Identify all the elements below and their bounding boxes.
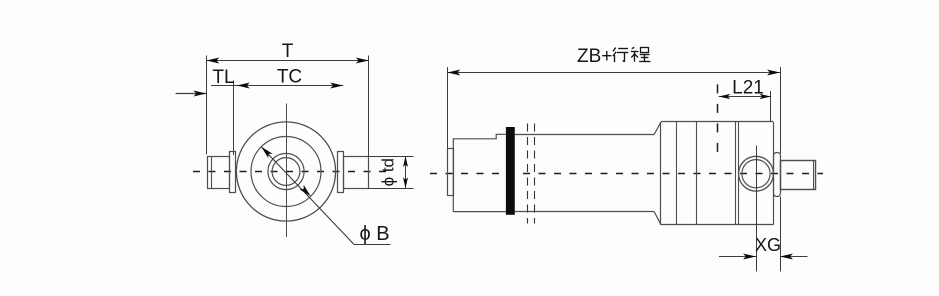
- left trunnion cap line: [211, 156, 213, 188]
- rod bushing outer circle: [268, 153, 304, 189]
- arrowhead ZB left: [447, 70, 460, 76]
- svg-text:ϕ td: ϕ td: [379, 158, 398, 186]
- arrowhead phi B lower-right: [299, 185, 310, 196]
- head left face: [660, 122, 662, 225]
- wire ZB extension line right: [780, 67, 782, 154]
- wire extension line right of T dimension: [368, 56, 370, 157]
- hidden piston line left: [527, 124, 529, 224]
- hidden port position dashed line: [717, 84, 719, 157]
- label xingcheng char xing: [613, 48, 616, 52]
- body outer circle: [236, 122, 335, 221]
- head bottom line: [661, 224, 773, 226]
- arrowhead phi B upper-left: [261, 147, 272, 158]
- arrowhead phi td bottom: [403, 177, 408, 188]
- dimension ZB line: [447, 72, 780, 74]
- dimension TL/TC line: [211, 85, 343, 87]
- cap joint line 1: [735, 122, 737, 225]
- svg-text:T: T: [282, 41, 294, 62]
- wire extension line TL right: [233, 81, 235, 156]
- arrowhead T right: [356, 58, 369, 64]
- piston rod stub chamfer line: [813, 160, 815, 189]
- label xingcheng char cheng: [632, 47, 635, 48]
- rod bushing inner circle: [272, 158, 300, 186]
- hidden piston line right: [534, 124, 536, 224]
- wire XG right arrow leader: [780, 256, 808, 258]
- cylinder tube bottom line: [515, 211, 654, 213]
- rod end button: [448, 149, 454, 196]
- bolt circle phi B: [251, 137, 321, 207]
- arrowhead TC right: [330, 83, 343, 89]
- piston rod stub: [781, 161, 816, 190]
- port boss outer circle: [739, 156, 774, 191]
- cap end block outline: [453, 134, 506, 211]
- wire XG extension right: [780, 197, 782, 272]
- right trunnion pin rectangle: [344, 157, 369, 189]
- head right face: [773, 122, 775, 225]
- wire XG left arrow leader: [719, 256, 756, 258]
- head chamfer bottom: [654, 212, 661, 225]
- wire TL outside arrow leader: [176, 93, 207, 95]
- head internal line 1: [676, 122, 678, 225]
- node horizontal centerline of side view: [430, 173, 823, 175]
- svg-text:ZB+: ZB+: [577, 46, 612, 67]
- arrowhead ZB right: [767, 70, 780, 76]
- wire ZB extension line left: [447, 67, 449, 196]
- svg-text:L21: L21: [732, 78, 764, 99]
- head chamfer top: [654, 122, 661, 134]
- cylinder tube top line: [515, 134, 654, 136]
- rod collar ring: [774, 153, 781, 197]
- right trunnion boss: [338, 152, 344, 193]
- head internal line 2: [696, 122, 698, 225]
- arrowhead L21 right: [760, 94, 772, 99]
- svg-text:XG: XG: [755, 235, 781, 255]
- node vertical centerline of end view: [286, 104, 288, 238]
- wire extension top for phi td: [369, 156, 414, 158]
- arrowhead TL outside: [193, 91, 206, 97]
- head top line: [661, 121, 773, 123]
- arrowhead T left: [206, 58, 219, 64]
- weld seal black band: [506, 127, 515, 215]
- port boss inner circle: [742, 160, 770, 188]
- dimension T line: [206, 60, 368, 62]
- cap joint line 2: [738, 122, 740, 225]
- arrowhead phi td top: [403, 156, 408, 167]
- wire port center line / XG extension left: [756, 146, 758, 272]
- svg-text:ϕ B: ϕ B: [359, 223, 389, 245]
- arrowhead TC left: [237, 83, 250, 89]
- arrowhead L21 left: [719, 94, 731, 99]
- wire extension bottom for phi td: [369, 188, 414, 190]
- left trunnion pin rectangle: [208, 157, 230, 189]
- wire L21 extension right: [770, 91, 772, 122]
- dimension phi B diagonal line: [261, 147, 354, 245]
- wire extension line left of T dimension: [206, 56, 208, 155]
- svg-text:TL: TL: [212, 67, 234, 88]
- arrowhead XG left: [743, 254, 756, 260]
- svg-text:TC: TC: [277, 67, 302, 88]
- arrowhead XG right: [780, 254, 793, 260]
- dimension phi td line: [405, 156, 407, 188]
- node horizontal centerline of end view: [193, 171, 391, 173]
- wire phi B leader horizontal: [354, 244, 390, 246]
- left trunnion boss: [230, 152, 236, 193]
- dimension L21 line: [719, 96, 771, 98]
